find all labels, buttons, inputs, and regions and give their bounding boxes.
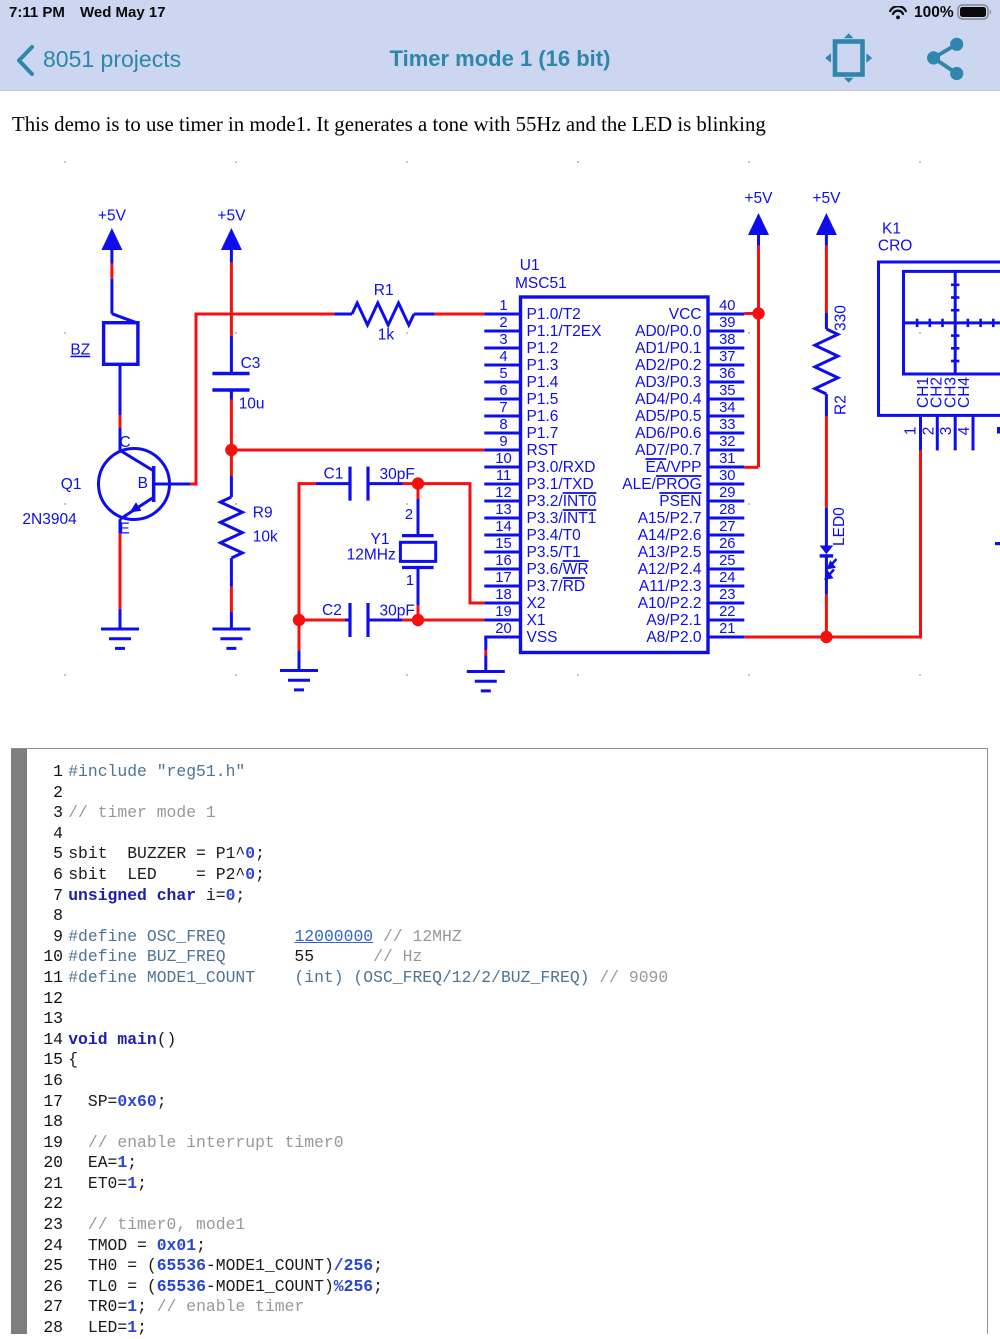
wire R1 to pin1 xyxy=(435,313,485,316)
pin 37 (AD2/P0.2) xyxy=(635,349,744,374)
pin 31 (EA/VPP) xyxy=(646,451,745,476)
pin 17 (P3.7/RD) xyxy=(484,570,585,595)
pin 11 (P3.1/TXD) xyxy=(484,468,593,493)
pin 2 (P1.1/T2EX) xyxy=(484,315,602,340)
pin 8 (P1.7) xyxy=(484,417,558,442)
wire C3 to RST junction xyxy=(230,400,233,451)
crystal Y1 12MHz xyxy=(347,499,436,605)
svg-text:+5V: +5V xyxy=(744,190,773,207)
svg-text:C1: C1 xyxy=(324,466,344,483)
wire +5V to VCC and EA/VPP xyxy=(757,246,760,468)
ground (R9) xyxy=(212,612,250,648)
svg-text:R1: R1 xyxy=(374,282,394,299)
pin 39 (AD0/P0.0) xyxy=(635,315,744,340)
CRO partial pin line (clipped) xyxy=(995,542,1000,545)
svg-text:3: 3 xyxy=(499,332,507,348)
svg-text:4: 4 xyxy=(499,349,507,365)
svg-text:LED0: LED0 xyxy=(831,507,848,546)
svg-text:P1.6: P1.6 xyxy=(527,408,559,425)
svg-text:11: 11 xyxy=(496,468,511,484)
svg-text:35: 35 xyxy=(719,383,735,399)
svg-text:12MHz: 12MHz xyxy=(347,546,396,563)
pin 12 (P3.2/INT0) xyxy=(484,485,596,510)
svg-text:9: 9 xyxy=(499,434,507,450)
svg-text:27: 27 xyxy=(719,519,735,535)
wire R2 bottom to LED top xyxy=(825,416,828,508)
svg-text:BZ: BZ xyxy=(70,342,90,359)
wire net P1.0-R1-Q1 base xyxy=(190,314,335,484)
svg-text:AD2/P0.2: AD2/P0.2 xyxy=(635,357,701,374)
capacitor C2 30pF xyxy=(322,602,415,637)
wire XTAL pin2 stub xyxy=(417,488,420,499)
pin 6 (P1.5) xyxy=(484,383,558,408)
svg-text:CRO: CRO xyxy=(878,237,912,254)
svg-text:38: 38 xyxy=(719,332,735,348)
svg-text:36: 36 xyxy=(719,366,735,382)
svg-text:PSEN: PSEN xyxy=(659,493,701,510)
CRO pin 1 (CH1) xyxy=(903,415,921,450)
pin 7 (P1.6) xyxy=(484,400,558,425)
svg-text:A14/P2.6: A14/P2.6 xyxy=(638,527,702,544)
wire C2 node to ground xyxy=(298,620,301,651)
svg-text:AD0/P0.0: AD0/P0.0 xyxy=(635,323,702,340)
node C1/XTAL2/X2 junction xyxy=(412,477,424,489)
wire junction to R9 top xyxy=(230,450,233,476)
svg-text:VSS: VSS xyxy=(527,629,558,646)
svg-text:EA/VPP: EA/VPP xyxy=(646,459,702,476)
pin 34 (AD5/P0.5) xyxy=(635,400,744,425)
pin 33 (AD6/P0.6) xyxy=(635,417,744,442)
pin 32 (AD7/P0.7) xyxy=(635,434,744,459)
svg-text:C3: C3 xyxy=(241,355,261,372)
wire X1 node to pin19 xyxy=(418,619,484,622)
svg-text:39: 39 xyxy=(719,315,735,331)
svg-text:10: 10 xyxy=(495,451,511,467)
pin 23 (A10/P2.2) xyxy=(638,587,745,612)
svg-text:25: 25 xyxy=(719,553,735,569)
svg-text:A9/P2.1: A9/P2.1 xyxy=(646,612,701,629)
svg-text:P3.6/WR: P3.6/WR xyxy=(527,561,589,578)
svg-text:E: E xyxy=(120,521,130,538)
svg-text:30pF: 30pF xyxy=(380,603,415,620)
svg-text:P1.4: P1.4 xyxy=(527,374,559,391)
CRO pin 4 (CH4) xyxy=(956,415,973,450)
pin 19 (X1) xyxy=(484,604,545,629)
wire C1 left to C2 left riser xyxy=(299,484,316,620)
svg-text:P1.5: P1.5 xyxy=(527,391,559,408)
svg-text:37: 37 xyxy=(719,349,735,365)
transistor Q1 2N3904 xyxy=(22,428,190,538)
wire RST net to pin9 xyxy=(231,449,484,452)
ground (Q1 emitter) xyxy=(101,609,139,649)
svg-text:P3.4/T0: P3.4/T0 xyxy=(527,527,582,544)
wire XTAL node to X2 pin18 xyxy=(418,484,484,603)
svg-text:A11/P2.3: A11/P2.3 xyxy=(639,578,702,595)
svg-text:P3.7/RD: P3.7/RD xyxy=(527,578,586,595)
svg-text:P3.1/TXD: P3.1/TXD xyxy=(527,476,594,493)
svg-text:26: 26 xyxy=(719,536,735,552)
pin 28 (A15/P2.7) xyxy=(638,502,745,527)
CRO channel labels CH1-CH4 xyxy=(915,377,973,408)
svg-text:CH4: CH4 xyxy=(956,377,973,408)
svg-text:C2: C2 xyxy=(322,602,342,619)
svg-text:10u: 10u xyxy=(239,396,265,413)
svg-text:AD7/P0.7: AD7/P0.7 xyxy=(635,442,701,459)
svg-text:31: 31 xyxy=(719,451,735,467)
wire C2 left xyxy=(299,619,345,622)
decorative grid dots xyxy=(64,161,921,676)
svg-text:P1.0/T2: P1.0/T2 xyxy=(527,306,581,323)
pin 29 (PSEN) xyxy=(659,485,744,510)
svg-text:P3.2/INT0: P3.2/INT0 xyxy=(527,493,597,510)
svg-text:3: 3 xyxy=(938,427,955,436)
pin 5 (P1.4) xyxy=(484,366,558,391)
svg-text:P3.3/INT1: P3.3/INT1 xyxy=(527,510,597,527)
ground (C2 node) xyxy=(280,651,318,690)
wire +5V to BZ (red segment) xyxy=(110,264,113,279)
power +5V symbol (C3 branch) xyxy=(221,228,242,250)
svg-text:AD4/P0.4: AD4/P0.4 xyxy=(635,391,702,408)
svg-text:33: 33 xyxy=(719,417,735,433)
node LED/pin21 junction xyxy=(820,631,832,643)
pin 1 (P1.0/T2) xyxy=(484,298,580,323)
oscilloscope K1 CRO xyxy=(878,221,1000,416)
wire pin21 to LED bottom and CRO CH1 xyxy=(744,450,920,637)
svg-text:B: B xyxy=(138,475,148,492)
node RST/C3/R9 junction xyxy=(225,444,237,456)
resistor R2 330 xyxy=(815,305,850,416)
svg-text:AD6/P0.6: AD6/P0.6 xyxy=(635,425,701,442)
svg-text:P1.2: P1.2 xyxy=(527,340,559,357)
LED LED0 xyxy=(820,507,848,595)
wire Q1 emitter to ground (red segment) xyxy=(119,534,122,609)
pin 18 (X2) xyxy=(484,587,545,612)
capacitor C3 10u xyxy=(212,336,264,413)
svg-text:6: 6 xyxy=(499,383,507,399)
svg-text:330: 330 xyxy=(833,305,850,331)
svg-text:VCC: VCC xyxy=(669,306,702,323)
node VCC junction xyxy=(752,307,764,319)
pin 4 (P1.3) xyxy=(484,349,558,374)
wire C1 right to XTAL junction xyxy=(403,482,418,485)
wire VCC pin40 stub xyxy=(744,312,758,315)
svg-text:P3.0/RXD: P3.0/RXD xyxy=(527,459,596,476)
wire XTAL pin1 stub xyxy=(417,605,420,620)
svg-text:P1.3: P1.3 xyxy=(527,357,559,374)
svg-text:P1.1/T2EX: P1.1/T2EX xyxy=(527,323,603,340)
svg-text:13: 13 xyxy=(495,502,511,518)
CRO pin 3 (CH3) xyxy=(938,415,955,450)
svg-text:C: C xyxy=(120,434,131,451)
wire EA pin31 stub xyxy=(744,466,758,469)
svg-text:AD5/P0.5: AD5/P0.5 xyxy=(635,408,701,425)
svg-text:8: 8 xyxy=(499,417,507,433)
pin 16 (P3.6/WR) xyxy=(484,553,588,578)
pin 3 (P1.2) xyxy=(484,332,558,357)
svg-text:16: 16 xyxy=(495,553,511,569)
svg-text:5: 5 xyxy=(499,366,507,382)
pin 40 (VCC) xyxy=(669,298,745,323)
wire VSS pin20 to ground (red segment) xyxy=(484,650,487,655)
svg-text:7: 7 xyxy=(499,400,507,416)
svg-text:22: 22 xyxy=(719,604,735,620)
svg-text:K1: K1 xyxy=(882,221,901,238)
power +5V symbol (buzzer branch) xyxy=(101,228,122,250)
svg-text:1: 1 xyxy=(406,573,414,589)
svg-text:20: 20 xyxy=(495,621,511,637)
svg-text:+5V: +5V xyxy=(217,207,246,224)
pin 35 (AD4/P0.4) xyxy=(635,383,744,408)
CRO partial pin 5 label (clipped) xyxy=(997,427,1000,434)
pin 21 (A8/P2.0) xyxy=(646,621,744,646)
op-amp/IC U1 MSC51 8051 microcontroller xyxy=(515,257,708,653)
power +5V symbol (VCC branch) xyxy=(748,213,769,235)
svg-text:1: 1 xyxy=(499,298,507,314)
CRO pin 2 (CH2) xyxy=(920,415,937,450)
pin 36 (AD3/P0.3) xyxy=(635,366,744,391)
buzzer BZ xyxy=(70,279,137,415)
svg-text:MSC51: MSC51 xyxy=(515,275,567,292)
svg-text:15: 15 xyxy=(495,536,511,552)
svg-text:AD3/P0.3: AD3/P0.3 xyxy=(635,374,701,391)
svg-text:10k: 10k xyxy=(253,529,278,546)
svg-text:24: 24 xyxy=(719,570,735,586)
svg-text:1k: 1k xyxy=(378,327,395,344)
svg-text:30: 30 xyxy=(719,468,735,484)
power +5V symbol (R2 branch) xyxy=(816,213,837,235)
svg-text:P1.7: P1.7 xyxy=(527,425,559,442)
resistor R1 1k xyxy=(335,282,435,344)
svg-text:X2: X2 xyxy=(527,595,546,612)
pin 26 (A13/P2.5) xyxy=(638,536,745,561)
resistor R9 10k xyxy=(220,476,278,587)
svg-text:4: 4 xyxy=(956,426,973,435)
pin 38 (AD1/P0.1) xyxy=(635,332,744,357)
svg-text:+5V: +5V xyxy=(98,207,127,224)
pin 22 (A9/P2.1) xyxy=(646,604,744,629)
svg-text:14: 14 xyxy=(495,519,511,535)
svg-text:28: 28 xyxy=(719,502,735,518)
pin 24 (A11/P2.3) xyxy=(639,570,744,595)
svg-text:2: 2 xyxy=(920,427,937,436)
svg-text:30pF: 30pF xyxy=(380,466,415,483)
pin 27 (A14/P2.6) xyxy=(638,519,745,544)
svg-text:40: 40 xyxy=(719,298,735,314)
wire +5V to C3 (red segment) xyxy=(230,263,233,336)
svg-text:Q1: Q1 xyxy=(61,476,82,493)
ground (VSS pin20) xyxy=(467,637,505,691)
pin 20 (VSS) xyxy=(484,621,557,646)
svg-text:+5V: +5V xyxy=(812,190,841,207)
svg-text:12: 12 xyxy=(495,485,511,501)
svg-text:RST: RST xyxy=(527,442,559,459)
wire LED bottom to pin21 net xyxy=(825,595,828,631)
svg-text:R9: R9 xyxy=(253,505,273,522)
svg-text:A15/P2.7: A15/P2.7 xyxy=(638,510,702,527)
svg-text:2: 2 xyxy=(499,315,507,331)
svg-text:ALE/PROG: ALE/PROG xyxy=(622,476,701,493)
svg-text:29: 29 xyxy=(719,485,735,501)
svg-text:34: 34 xyxy=(719,400,735,416)
pin 25 (A12/P2.4) xyxy=(638,553,745,578)
capacitor C1 30pF xyxy=(316,466,415,501)
svg-text:19: 19 xyxy=(495,604,511,620)
wire BZ to Q1 collector (red segment) xyxy=(119,415,122,428)
pin name overlines xyxy=(563,459,702,578)
svg-text:21: 21 xyxy=(719,621,735,637)
svg-text:U1: U1 xyxy=(520,257,540,274)
wire R9 bottom to ground xyxy=(230,587,233,612)
svg-text:R2: R2 xyxy=(833,395,850,415)
svg-text:2N3904: 2N3904 xyxy=(22,511,77,528)
svg-text:1: 1 xyxy=(903,427,920,436)
svg-text:A10/P2.2: A10/P2.2 xyxy=(638,595,702,612)
svg-text:2: 2 xyxy=(405,507,413,523)
svg-text:A8/P2.0: A8/P2.0 xyxy=(646,629,702,646)
wire C2 right to X1 junction xyxy=(402,619,418,622)
svg-text:17: 17 xyxy=(495,570,511,586)
svg-text:23: 23 xyxy=(719,587,735,603)
svg-text:18: 18 xyxy=(495,587,511,603)
wire +5V to R2 (red segment) xyxy=(825,246,828,313)
pin 15 (P3.5/T1) xyxy=(484,536,580,561)
svg-text:A12/P2.4: A12/P2.4 xyxy=(638,561,702,578)
svg-text:AD1/P0.1: AD1/P0.1 xyxy=(635,340,701,357)
pin 9 (RST) xyxy=(484,434,558,459)
pin 10 (P3.0/RXD) xyxy=(484,451,595,476)
svg-text:X1: X1 xyxy=(527,612,546,629)
node C2/ground junction xyxy=(293,614,305,626)
pin 13 (P3.3/INT1) xyxy=(484,502,596,527)
svg-text:32: 32 xyxy=(719,434,735,450)
pin 14 (P3.4/T0) xyxy=(484,519,581,544)
svg-text:P3.5/T1: P3.5/T1 xyxy=(527,544,581,561)
node C2/XTAL1/X1 junction xyxy=(412,614,424,626)
pin 30 (ALE/PROG) xyxy=(622,468,744,493)
svg-text:A13/P2.5: A13/P2.5 xyxy=(638,544,702,561)
